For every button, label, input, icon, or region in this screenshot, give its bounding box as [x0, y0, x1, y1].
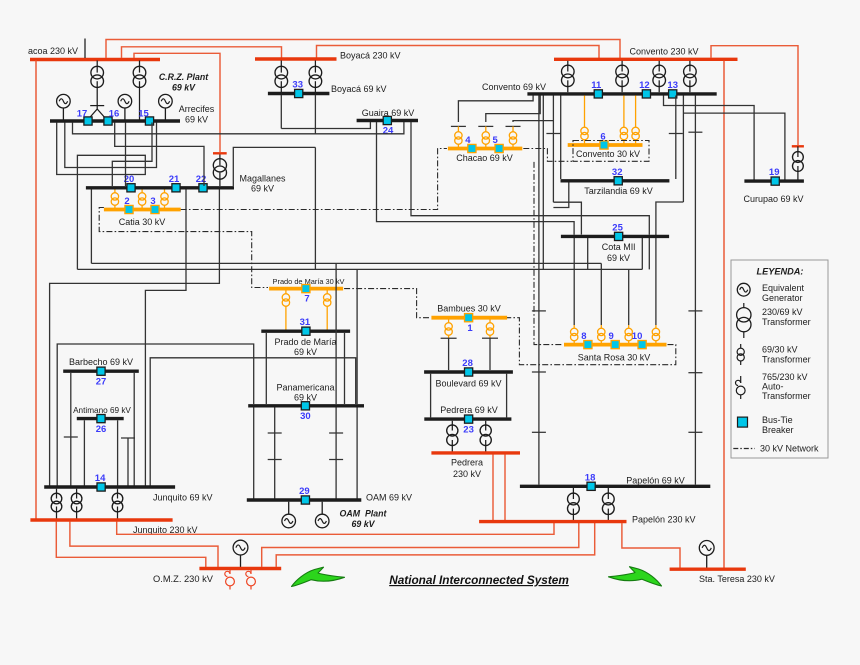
tick on Papelon left riser lower	[532, 371, 546, 373]
svg-text:5: 5	[492, 135, 498, 146]
transformer Papelon T1	[572, 488, 574, 499]
transformer Chacao T2 69/30	[485, 126, 487, 131]
transformer Chacao T1 69/30	[457, 126, 459, 131]
svg-text:31: 31	[300, 317, 311, 328]
green arrow left	[292, 567, 345, 586]
wire Bambues T2-Boulevard	[489, 338, 491, 370]
breaker 27	[97, 367, 105, 375]
wire Antimano-Junquito left	[83, 420, 85, 485]
wire Antimano-Junquito right	[117, 420, 119, 485]
generator Arrecifes G3	[159, 94, 173, 108]
legend 30 kV network symbol	[733, 448, 755, 450]
svg-text:22: 22	[196, 174, 207, 185]
wire Prado69-Panamericana right	[344, 333, 346, 404]
svg-text:7: 7	[304, 294, 309, 305]
wire Tacoa-Magallanes 230 kV line C	[134, 53, 220, 152]
svg-text:13: 13	[667, 80, 678, 91]
breaker 33	[295, 89, 303, 97]
transformer Chacao T3 69/30	[512, 126, 514, 131]
svg-text:Chacao 69 kV: Chacao 69 kV	[456, 153, 513, 163]
bus Panamericana 69 kV	[248, 404, 364, 407]
wire Tarzilandia step to feeder	[553, 183, 568, 208]
wire Boulevard-Pedrera right	[506, 374, 508, 418]
transformer Prado T1 69/30	[285, 291, 287, 294]
wire H2 Arrecifes-CotaMil	[77, 268, 642, 270]
transformer Boyaca T1	[280, 61, 282, 73]
wire Convento-Curupao feeder 1	[664, 96, 755, 180]
breaker 11	[594, 90, 602, 98]
svg-text:11: 11	[591, 80, 602, 91]
svg-text:Junquito 69 kV: Junquito 69 kV	[153, 493, 213, 503]
transformer Convento T2	[621, 61, 623, 72]
wire Convento-Chacao feeder 2	[486, 96, 540, 123]
svg-text:Arrecifes: Arrecifes	[179, 104, 215, 114]
wire Convento-Chacao feeder 3 and CotaMil	[552, 96, 554, 203]
svg-text:69 kV: 69 kV	[294, 347, 317, 357]
breaker 12	[642, 90, 650, 98]
wire H1 Magallanes-SantaRosa	[91, 262, 601, 264]
bus Tarzilandia 69 kV	[561, 179, 670, 182]
svg-text:12: 12	[639, 80, 650, 91]
generator OAM G2	[321, 502, 323, 514]
breaker 23	[465, 415, 473, 423]
wire Tarzilandia left riser	[560, 96, 562, 180]
wire Magallanes-H1 riser	[90, 190, 92, 264]
generator Arrecifes G1	[57, 94, 71, 108]
wire Convento-Sta Teresa 230 kV line F	[723, 61, 725, 568]
svg-text:Papelón 230 kV: Papelón 230 kV	[632, 515, 696, 525]
wire Guaira-Arrecifes	[73, 122, 404, 134]
svg-text:Transformer: Transformer	[762, 355, 811, 365]
breaker 18	[587, 482, 595, 490]
svg-text:4: 4	[465, 135, 471, 146]
svg-text:Pedrera: Pedrera	[451, 458, 483, 468]
wire CotaMil drop 3	[648, 238, 650, 269]
svg-text:Prado de María: Prado de María	[274, 337, 336, 347]
wire Panamericana-OAM 4	[356, 408, 358, 499]
transformer Convento30 T2 69/30	[623, 96, 625, 128]
tick Barbecho-Junquito left	[64, 436, 78, 438]
transformer Pedrera T2	[485, 421, 487, 431]
tick Panamericana-OAM 2a	[268, 432, 282, 434]
svg-text:Bus-Tie: Bus-Tie	[762, 415, 793, 425]
breaker 1	[465, 314, 473, 322]
svg-text:69 kV: 69 kV	[352, 519, 376, 529]
bus Chacao 69 kV	[448, 147, 522, 151]
wire Convento-Chacao feeder 1	[458, 96, 533, 123]
generator OMZ	[233, 540, 248, 555]
wire Santa Rosa feeder 2	[600, 263, 602, 325]
svg-text:3: 3	[150, 196, 155, 207]
transformer C.R.Z. T1	[96, 61, 98, 73]
svg-text:69 kV: 69 kV	[607, 253, 630, 263]
transformer C.R.Z. T2	[139, 61, 141, 73]
svg-text:National Interconnected System: National Interconnected System	[389, 573, 569, 587]
wire Tarzilandia right riser	[675, 96, 677, 180]
wire Guaira-CotaMil 1	[377, 122, 575, 235]
tick Curupao 230 kV stub	[792, 145, 804, 147]
breaker 2	[125, 205, 133, 213]
svg-text:O.M.Z. 230 kV: O.M.Z. 230 kV	[153, 574, 214, 584]
svg-text:2: 2	[124, 196, 129, 207]
svg-text:Boyacá 69 kV: Boyacá 69 kV	[331, 84, 387, 94]
transformer Bambues T2 69/30	[489, 320, 491, 323]
wire Tacoa-Junquito 230 kV line G	[35, 61, 37, 520]
legend bus-tie breaker symbol	[738, 417, 748, 427]
wire Boyaca feeder 1	[280, 95, 282, 129]
bus Papelon 69 kV	[520, 485, 710, 488]
breaker 5	[495, 144, 503, 152]
transformer SantaRosa T1 69/30	[573, 325, 575, 328]
bus Prado de Maria 30 kV	[269, 287, 343, 291]
svg-text:Papelón 69 kV: Papelón 69 kV	[626, 476, 685, 486]
wire Magallanes riser to Boyaca drop	[233, 147, 315, 186]
dash-dot Chacao to Convento30	[523, 149, 572, 162]
wire Convento-Curupao 230 kV line E	[711, 46, 798, 145]
svg-text:24: 24	[383, 126, 394, 137]
svg-text:69 kV: 69 kV	[172, 83, 196, 93]
wire Prado69-Panamericana left	[265, 333, 267, 404]
svg-text:Equivalent: Equivalent	[762, 283, 805, 293]
svg-text:Transformer: Transformer	[762, 391, 811, 401]
transformer Bambues T1 69/30	[448, 320, 450, 323]
bus Junquito 230 kV	[30, 518, 172, 521]
svg-text:23: 23	[463, 424, 474, 435]
wire vertical x315 to H1	[314, 147, 316, 269]
wire Barbecho-Junquito right	[133, 373, 135, 486]
svg-text:LEYENDA:: LEYENDA:	[757, 267, 804, 277]
auto-transformer OMZ load 1	[229, 570, 231, 574]
breaker 28	[465, 368, 473, 376]
wire Magallanes-Junquito east	[50, 190, 220, 486]
tick Bambues T1	[441, 337, 457, 339]
bus Sta Teresa 230 kV	[670, 568, 746, 571]
svg-text:Guaira 69 kV: Guaira 69 kV	[362, 108, 415, 118]
svg-text:230 kV: 230 kV	[453, 469, 481, 479]
wire Santa Rosa feeder 3	[628, 269, 630, 325]
wire Y-split to breakers 17/16	[88, 106, 97, 120]
transformer Convento30 T1 69/30	[584, 96, 586, 128]
wire Magallanes-Junquito west	[145, 190, 186, 486]
transformer Boyaca T2	[314, 61, 316, 73]
svg-text:25: 25	[612, 222, 623, 233]
svg-text:765/230 kV: 765/230 kV	[762, 372, 808, 382]
tick at Tacoa label	[84, 39, 86, 59]
tick Panamericana-OAM 3a	[329, 432, 343, 434]
transformer Junquito T3	[117, 489, 119, 499]
svg-text:Convento 69 kV: Convento 69 kV	[482, 82, 546, 92]
legend equivalent generator symbol	[737, 283, 750, 296]
tick on Papelon right riser lower	[688, 372, 702, 374]
transformer Curupao 230/69	[797, 146, 799, 157]
transformer Catia T1 69/30	[114, 190, 116, 193]
tick Bambues T2	[482, 337, 498, 339]
svg-text:acoa 230 kV: acoa 230 kV	[28, 46, 78, 56]
breaker 3	[151, 205, 159, 213]
svg-text:Magallanes: Magallanes	[239, 174, 286, 184]
bus Magallanes 69 kV	[86, 186, 234, 189]
dash-dot Catia box	[99, 208, 268, 288]
tick on Papelon right riser upper	[688, 310, 702, 312]
wire Boulevard-Pedrera left	[430, 374, 432, 418]
svg-text:OAM 69 kV: OAM 69 kV	[366, 493, 412, 503]
svg-text:8: 8	[581, 331, 586, 342]
svg-text:Tarzilandia 69 kV: Tarzilandia 69 kV	[584, 186, 653, 196]
svg-text:Boulevard 69 kV: Boulevard 69 kV	[435, 378, 501, 388]
tick on Convento-CotaMil feeder	[546, 133, 560, 135]
tick Panamericana-OAM 2b	[268, 459, 282, 461]
wire Junquito-Panamericana via y357	[150, 358, 356, 486]
svg-text:9: 9	[609, 331, 614, 342]
wire Panamericana-OAM 1	[253, 408, 255, 499]
wire Junquito stub	[127, 438, 129, 486]
wire Convento-Papelon left riser	[538, 96, 540, 485]
breaker 24	[383, 116, 391, 124]
tick Chacao feeder 3	[506, 125, 521, 127]
svg-text:18: 18	[585, 472, 596, 483]
svg-text:Curupao 69 kV: Curupao 69 kV	[743, 194, 803, 204]
breaker 31	[302, 327, 310, 335]
bus Junquito 69 kV	[44, 485, 175, 488]
bus Bambues 30 kV	[431, 316, 507, 320]
svg-text:Boyacá 230 kV: Boyacá 230 kV	[340, 50, 401, 60]
svg-text:33: 33	[292, 80, 303, 91]
wire Guaira-CotaMil 2	[411, 122, 649, 235]
bus Boyaca 69 kV	[268, 92, 330, 95]
dash-dot Prado30 to Bambues	[344, 289, 430, 318]
breaker 29	[301, 496, 309, 504]
dash-dot Santa Rosa box	[506, 318, 676, 365]
transformer Catia T3 69/30	[164, 190, 166, 193]
transformer Papelon T2	[607, 488, 609, 499]
bus Papelon 230 kV	[479, 520, 626, 523]
breaker 26	[97, 415, 105, 423]
breaker 17	[84, 117, 92, 125]
wire Pedrera-Papelon 230 right	[504, 455, 506, 521]
tick Chacao feeder 1	[451, 125, 466, 127]
generator Arrecifes G2	[118, 94, 132, 108]
bus OAM 69 kV	[247, 498, 361, 501]
bus Pedrera 230 kV	[431, 451, 520, 454]
svg-text:17: 17	[77, 109, 88, 120]
transformer Junquito T2	[76, 489, 78, 499]
transformer Junquito T1	[56, 489, 58, 499]
svg-text:Generator: Generator	[762, 293, 803, 303]
breaker 32	[614, 177, 622, 185]
breaker 10	[638, 341, 646, 349]
wire Barbecho-Junquito left	[70, 373, 72, 486]
svg-text:69 kV: 69 kV	[294, 393, 317, 403]
dash-dot Convento30 to Santa Rosa	[534, 162, 563, 345]
auto-transformer OMZ load 2	[250, 570, 252, 574]
wire Junquito-OMZ 1	[70, 522, 218, 568]
transformer Convento T3	[658, 61, 660, 72]
bus Tacoa 230 kV	[30, 58, 160, 61]
tick Magallanes 230 kV stub	[213, 152, 227, 154]
wire Arrecifes-Magallanes 3	[125, 123, 127, 187]
transformer SantaRosa T4 69/30	[655, 325, 657, 328]
svg-text:30 kV Network: 30 kV Network	[760, 444, 819, 454]
svg-text:16: 16	[109, 109, 120, 120]
bus Convento 230 kV	[554, 58, 738, 61]
breaker 25	[615, 232, 623, 240]
bus Antimano 69 kV	[77, 417, 124, 420]
wire H1-Panamericana riser	[335, 263, 337, 404]
svg-text:69 kV: 69 kV	[185, 115, 208, 125]
svg-text:Convento 230 kV: Convento 230 kV	[629, 47, 698, 57]
tick Panamericana-OAM 3b	[329, 459, 343, 461]
breaker 30	[301, 402, 309, 410]
bus OMZ 230 kV	[199, 567, 281, 570]
tick on Papelon right riser top	[688, 131, 702, 133]
svg-text:Breaker: Breaker	[762, 425, 794, 435]
wire Panamericana-OAM 2	[274, 408, 276, 499]
wire Arrecifes-Magallanes 1	[115, 123, 204, 187]
legend box	[731, 260, 828, 458]
svg-text:26: 26	[96, 424, 107, 435]
svg-text:Convento 30 kV: Convento 30 kV	[576, 149, 640, 159]
legend 69/30 transformer symbol	[740, 344, 742, 348]
bus Prado de Maria 69 kV	[261, 330, 350, 333]
wire OMZ-Papelon 230 second	[276, 523, 595, 567]
bus Boulevard 69 kV	[424, 370, 513, 373]
tick on Papelon left riser upper	[532, 310, 546, 312]
breaker 13	[669, 90, 677, 98]
transformer SantaRosa T2 69/30	[600, 325, 602, 328]
svg-text:Cota MIl: Cota MIl	[602, 242, 636, 252]
breaker 9	[611, 341, 619, 349]
wire CotaMil drop 1	[587, 238, 589, 269]
bus Barbecho 69 kV	[63, 370, 139, 373]
bus Catia 30 kV	[104, 208, 181, 212]
tick on Papelon left riser bottom	[532, 431, 546, 433]
generator Sta Teresa	[699, 541, 714, 556]
svg-text:69/30 kV: 69/30 kV	[762, 345, 798, 355]
wire Convento mid feeder	[542, 96, 544, 270]
transformer Convento T4	[689, 61, 691, 72]
transformer Prado T2 69/30	[326, 291, 328, 294]
wire Convento-Papelon right riser	[694, 96, 696, 485]
svg-text:69 kV: 69 kV	[251, 184, 274, 194]
dash-dot Catia to Chacao	[181, 149, 447, 210]
svg-text:230/69 kV: 230/69 kV	[762, 307, 803, 317]
svg-text:27: 27	[96, 377, 107, 388]
svg-text:32: 32	[612, 167, 623, 178]
wire Papelon-Sta Teresa 230	[622, 523, 680, 568]
wire Boyaca-Convento 230 kV line D	[317, 46, 600, 59]
bus Santa Rosa 30 kV	[564, 343, 667, 347]
wire Guaira-Boyaca T1	[281, 122, 370, 129]
wire Junquito-OMZ 2	[56, 522, 206, 568]
wire H2-Panamericana riser	[356, 269, 358, 404]
wire Arrecifes-H2 zigzag	[57, 123, 146, 270]
svg-text:Antimano 69 kV: Antimano 69 kV	[73, 406, 131, 415]
legend auto-transformer symbol	[740, 376, 742, 383]
svg-text:15: 15	[138, 109, 149, 120]
breaker 19	[771, 177, 779, 185]
breaker 14	[97, 483, 105, 491]
wire Convento-SantaRosa T4 feeder	[656, 202, 684, 325]
transformer Convento30 T3 69/30	[635, 96, 637, 128]
wire OMZ-Papelon 230	[262, 523, 579, 567]
breaker 4	[468, 144, 476, 152]
wire Arrecifes-Magallanes 2	[112, 123, 152, 187]
tick Chacao feeder 2	[478, 125, 493, 127]
bus Curupao 69 kV	[744, 179, 804, 182]
svg-text:14: 14	[95, 473, 106, 484]
svg-text:10: 10	[632, 331, 643, 342]
bus Pedrera 69 kV	[424, 417, 511, 420]
tick Tarzilandia right riser	[669, 133, 683, 135]
transformer Catia T2 69/30	[141, 190, 143, 193]
wire Convento-Curupao feeder 2	[682, 96, 684, 203]
svg-text:Bambues 30 kV: Bambues 30 kV	[437, 303, 501, 313]
bus Arrecifes 69 kV	[50, 119, 180, 122]
transformer SantaRosa T3 69/30	[628, 325, 630, 328]
tick on Papelon right riser bottom	[688, 431, 702, 433]
breaker 22	[199, 184, 207, 192]
wire CotaMil drop 2	[641, 238, 643, 269]
dash-dot box Convento 30	[573, 141, 649, 162]
transformer Magallanes 230/69	[219, 155, 221, 166]
wire Boyaca feeder 2	[314, 95, 316, 134]
transformer Convento T1	[567, 61, 569, 72]
bus Convento 30 kV	[568, 143, 643, 147]
breaker 8	[584, 341, 592, 349]
wire Pedrera-Papelon 230 left	[492, 455, 494, 521]
breaker 21	[172, 184, 180, 192]
svg-text:28: 28	[462, 358, 473, 369]
tick C.R.Z. T1	[90, 105, 104, 107]
bus Cota Mil 69 kV	[561, 235, 669, 238]
breaker 6	[600, 141, 608, 149]
svg-text:1: 1	[467, 323, 473, 334]
svg-text:29: 29	[299, 486, 310, 497]
svg-text:30: 30	[300, 411, 311, 422]
wire Santa Rosa feeder 1	[573, 238, 575, 325]
tick Junquito stub	[121, 437, 135, 439]
wire Tacoa-Boyaca 230 kV line B	[122, 47, 282, 58]
breaker 16	[104, 117, 112, 125]
svg-text:Santa Rosa 30 kV: Santa Rosa 30 kV	[578, 352, 651, 362]
wire Panamericana-OAM 3	[335, 408, 337, 499]
wire Tacoa-Convento 230 kV line A	[106, 40, 620, 59]
svg-text:19: 19	[769, 167, 780, 178]
bus Convento 69 kV	[527, 92, 716, 95]
breaker 7	[302, 285, 310, 293]
wire Arrecifes loop	[65, 123, 157, 168]
svg-text:OAM Plant: OAM Plant	[340, 509, 388, 519]
wire Junquito-Papelon 230	[117, 522, 554, 535]
breaker 20	[127, 184, 135, 192]
transformer Pedrera T1	[451, 421, 453, 431]
bus Guaira 69 kV	[357, 119, 418, 122]
bus Boyaca 230 kV	[255, 57, 337, 60]
svg-text:Barbecho 69 kV: Barbecho 69 kV	[69, 357, 133, 367]
breaker 15	[145, 117, 153, 125]
wire Bambues T1-Boulevard	[448, 338, 450, 370]
svg-text:Catia 30 kV: Catia 30 kV	[119, 217, 166, 227]
svg-text:C.R.Z. Plant: C.R.Z. Plant	[159, 72, 209, 82]
svg-text:Auto-: Auto-	[762, 382, 784, 392]
generator OAM G1	[288, 502, 290, 514]
svg-text:Pedrera 69 kV: Pedrera 69 kV	[440, 405, 498, 415]
svg-text:Transformer: Transformer	[762, 317, 811, 327]
legend 230/69 transformer symbol	[743, 303, 745, 308]
wire Junquito-Panamericana via y344	[57, 344, 254, 486]
svg-text:21: 21	[169, 174, 180, 185]
svg-text:Sta. Teresa 230 kV: Sta. Teresa 230 kV	[699, 574, 775, 584]
